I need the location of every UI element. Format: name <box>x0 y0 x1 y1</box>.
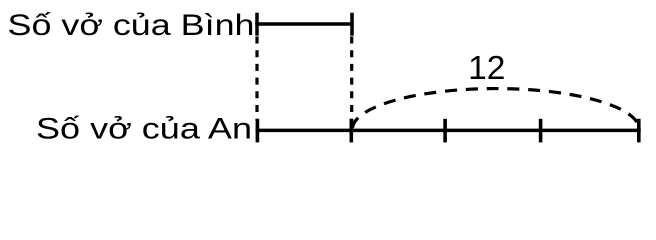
svg-text:Số vở của Bình: Số vở của Bình <box>8 9 255 42</box>
node: An bar tick 5 <box>637 119 641 143</box>
svg-text:Số vở của An: Số vở của An <box>36 113 252 146</box>
node: An bar tick 3 <box>443 119 447 143</box>
wire: Binh bar line <box>255 22 353 25</box>
node: An bar tick 2 <box>349 119 353 143</box>
node: Binh bar right tick <box>350 13 354 36</box>
node: An bar tick 4 <box>539 119 543 143</box>
svg-text:12: 12 <box>468 50 505 87</box>
node: Binh bar left tick <box>255 13 259 36</box>
wire: right dashed vertical <box>350 37 353 122</box>
node: An bar tick 1 <box>256 119 260 143</box>
wire: dashed brace arc spanning 12 <box>353 89 640 128</box>
wire: An bar line <box>256 129 641 133</box>
wire: left dashed vertical <box>255 37 258 122</box>
